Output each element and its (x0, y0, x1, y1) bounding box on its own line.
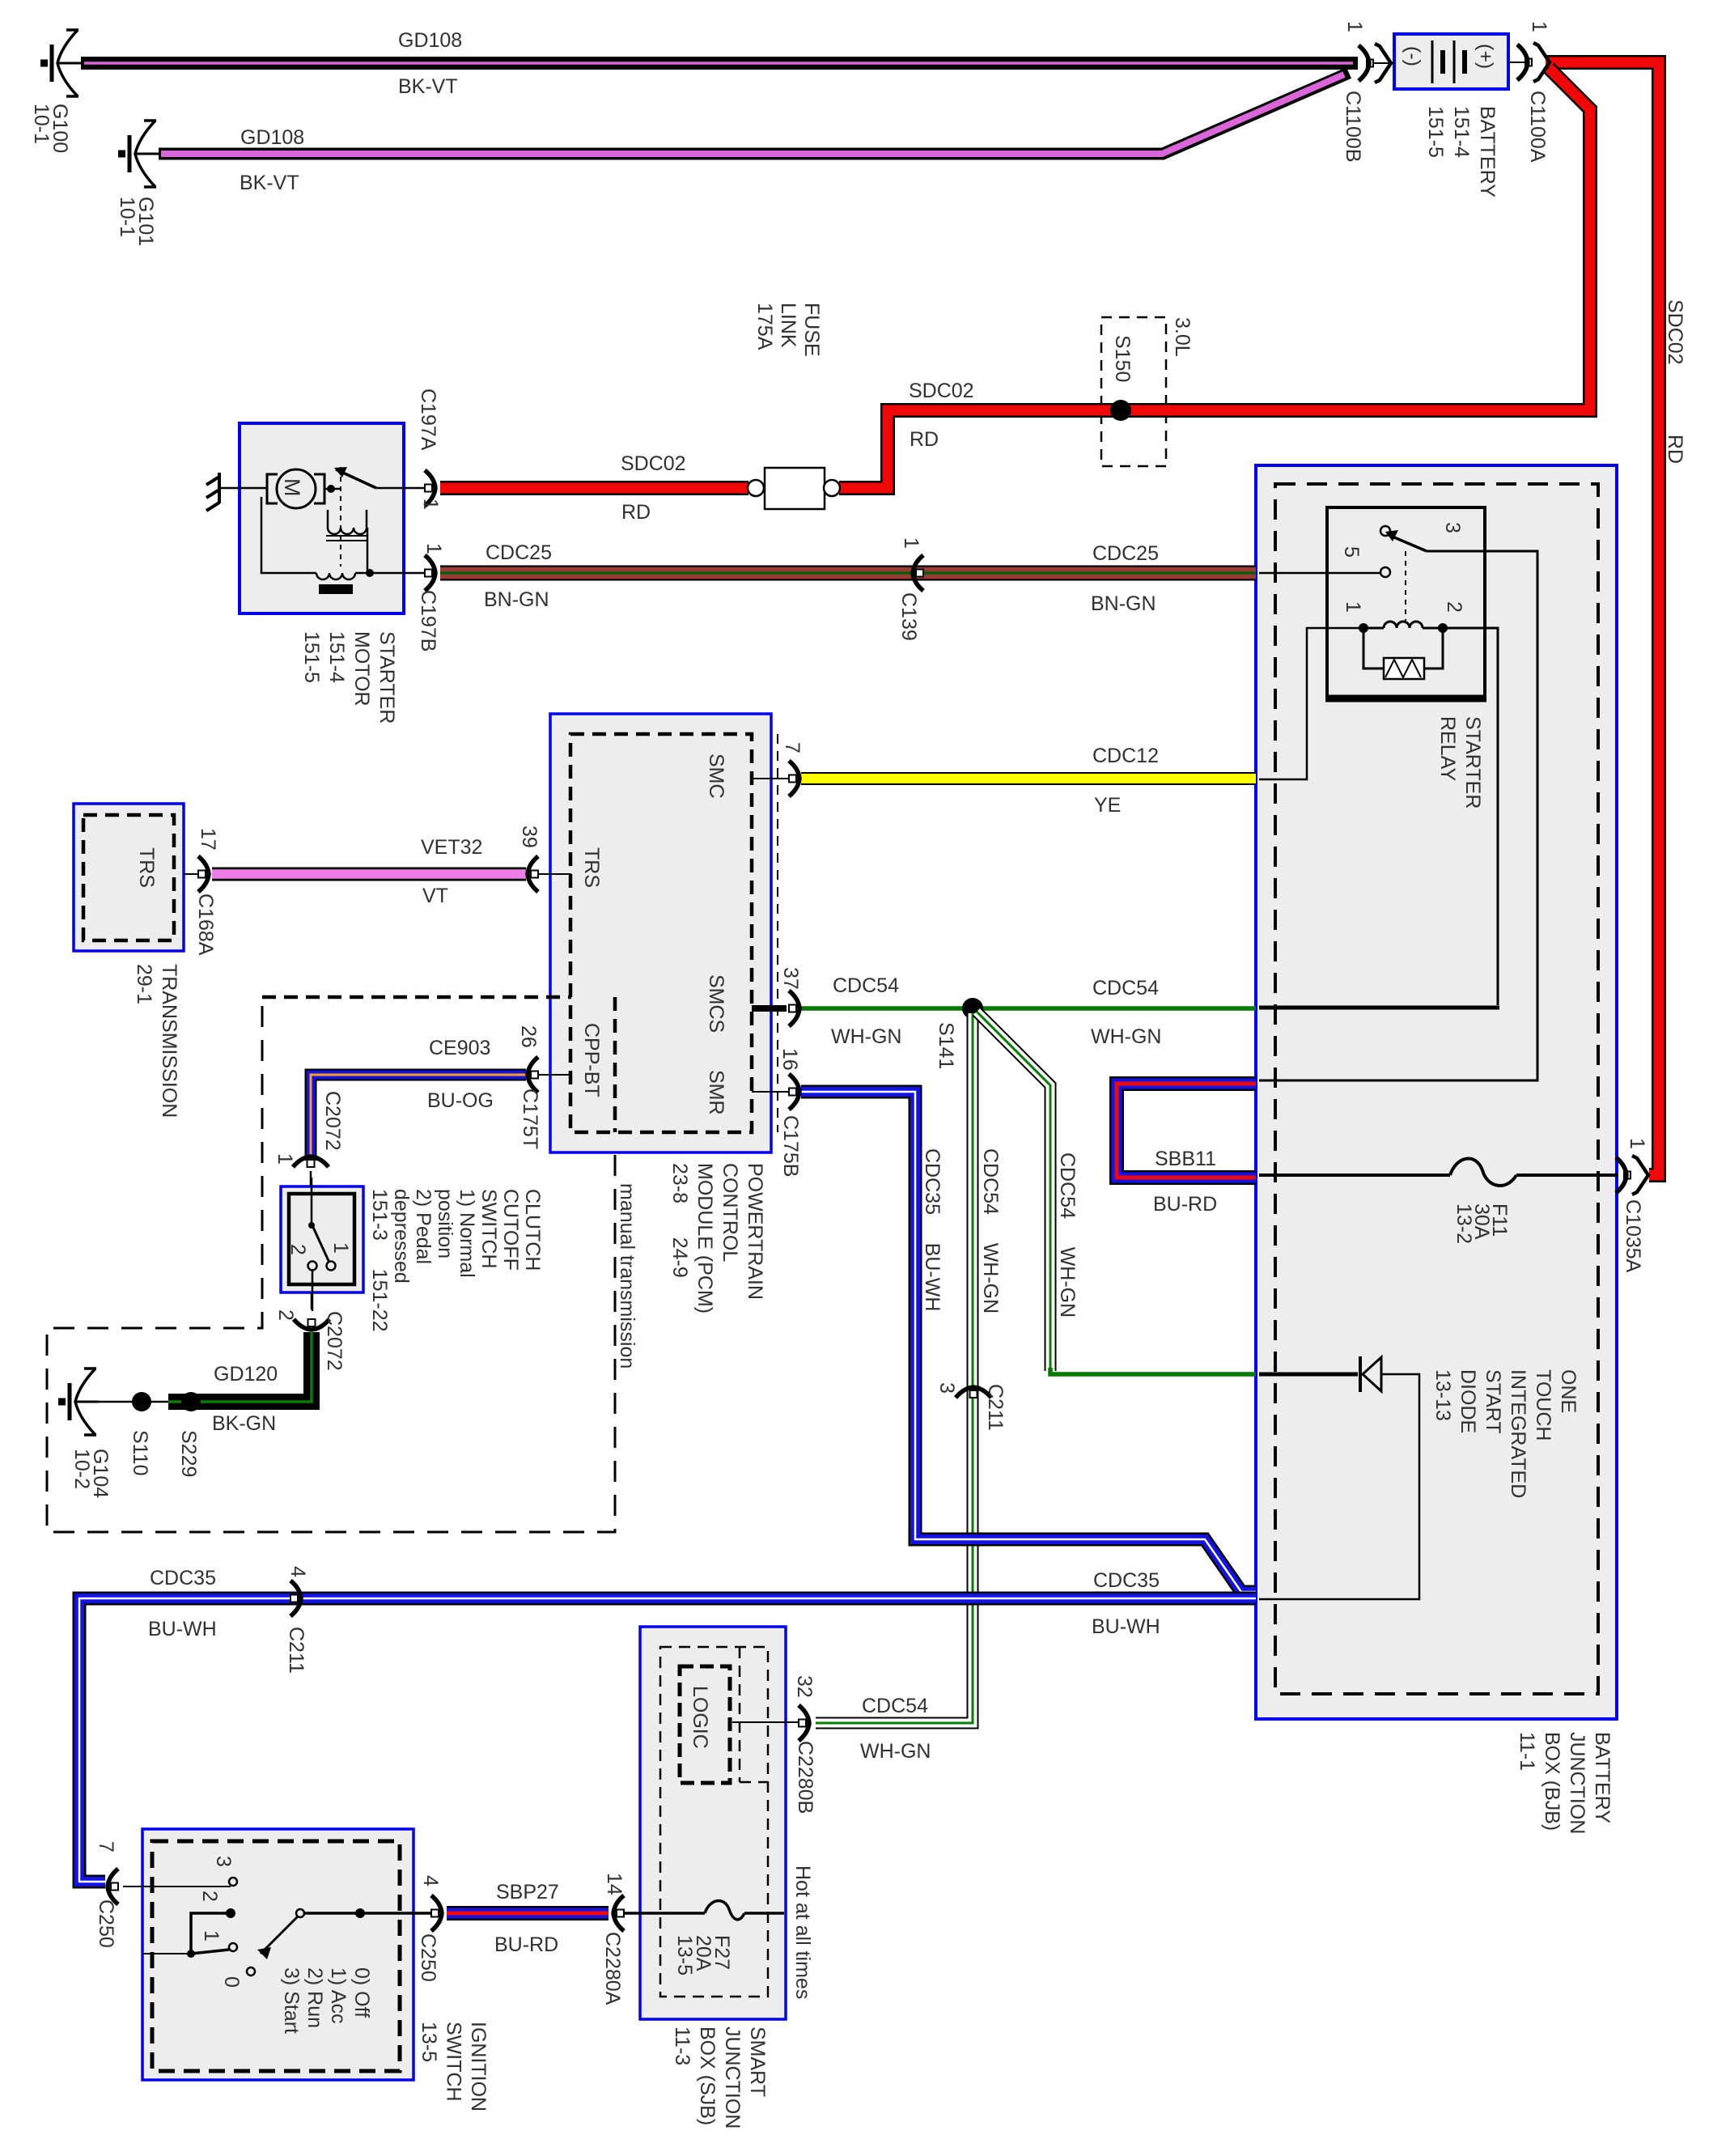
svg-text:JUNCTION: JUNCTION (1566, 1732, 1588, 1834)
svg-text:RELAY: RELAY (1436, 716, 1459, 781)
svg-text:BU-WH: BU-WH (148, 1618, 217, 1640)
svg-text:C197A: C197A (417, 388, 439, 451)
svg-text:RD: RD (1664, 435, 1686, 464)
connector C2280A pin 14 (613, 1895, 624, 1931)
svg-text:BN-GN: BN-GN (1091, 592, 1156, 615)
svg-text:C175B: C175B (779, 1115, 802, 1177)
svg-text:151-5: 151-5 (1424, 106, 1447, 158)
svg-text:2: 2 (286, 1244, 309, 1255)
ground G101 (118, 121, 159, 187)
connector C250 pin 4 (431, 1895, 442, 1931)
svg-text:17: 17 (197, 828, 219, 851)
connector C197A (404, 487, 430, 489)
svg-text:C211: C211 (285, 1627, 307, 1674)
svg-text:3: 3 (935, 1382, 958, 1394)
svg-text:CLUTCH: CLUTCH (521, 1189, 544, 1271)
relay coil pin2 line to CDC54 (1443, 628, 1498, 1005)
battery junction box (BJB) (1256, 465, 1617, 1719)
svg-text:29-1: 29-1 (133, 964, 155, 1004)
svg-text:STARTER: STARTER (1461, 716, 1484, 808)
relay coil pin1 line to CDC12 (1259, 628, 1359, 779)
svg-text:C175T: C175T (519, 1089, 541, 1149)
svg-text:CPP-BT: CPP-BT (580, 1023, 603, 1097)
smart junction box (SJB) (640, 1627, 786, 2019)
svg-text:RD: RD (910, 428, 939, 451)
svg-text:S110: S110 (129, 1430, 151, 1476)
PCM pin 26 CPP-BT (537, 1074, 571, 1076)
one touch integrated start diode (1259, 1373, 1358, 1377)
svg-text:16: 16 (778, 1048, 801, 1071)
svg-text:LINK: LINK (777, 303, 799, 348)
svg-text:14: 14 (603, 1873, 626, 1895)
wire SDC02 RD battery to right edge down to C1035A (1546, 62, 1659, 1175)
svg-text:CONTROL: CONTROL (719, 1163, 741, 1262)
svg-text:BK-GN: BK-GN (212, 1412, 276, 1435)
transmission TRS box (74, 804, 184, 951)
svg-text:SDC02: SDC02 (621, 452, 686, 475)
wire GD108 BK-VT from G100 to C1100B (81, 57, 1358, 70)
svg-text:151-4: 151-4 (1450, 106, 1473, 158)
LOGIC output line (732, 1721, 804, 1723)
svg-text:1: 1 (329, 1242, 352, 1254)
svg-text:CE903: CE903 (429, 1037, 490, 1059)
svg-text:1: 1 (419, 499, 442, 510)
svg-text:C2280B: C2280B (794, 1741, 816, 1814)
powertrain control module (PCM) box (550, 714, 778, 1152)
fuse link 175A (748, 468, 840, 509)
svg-text:LOGIC: LOGIC (689, 1686, 711, 1749)
connector C211 pin 3 (956, 1387, 991, 1398)
splice S110 (132, 1392, 151, 1411)
starter relay box (1325, 507, 1486, 700)
wire CDC12 YE from PCM SMC to BJB (801, 772, 1256, 785)
PCM pin 7 SMC (752, 778, 796, 779)
svg-text:151-4: 151-4 (325, 631, 348, 683)
clutch cutoff switch box (281, 1186, 363, 1292)
wire VET32 VT TRS to PCM (212, 868, 526, 881)
svg-text:2: 2 (198, 1891, 221, 1902)
svg-text:START: START (1482, 1369, 1504, 1434)
svg-text:TRS: TRS (580, 847, 603, 888)
svg-text:13-5: 13-5 (418, 2022, 440, 2062)
PCM pin 39 TRS (537, 873, 571, 875)
svg-text:BK-VT: BK-VT (240, 172, 299, 194)
relay pin 3 and switch blade (1380, 526, 1390, 536)
connector C250 pin 7 (108, 1869, 118, 1904)
svg-text:11-1: 11-1 (1516, 1732, 1538, 1771)
svg-text:SMART: SMART (746, 2027, 769, 2097)
svg-text:BK-VT: BK-VT (398, 75, 458, 98)
svg-text:C2072: C2072 (323, 1311, 346, 1371)
svg-text:13-5: 13-5 (673, 1935, 696, 1976)
svg-text:MOTOR: MOTOR (350, 631, 373, 707)
svg-text:C197B: C197B (417, 590, 439, 651)
svg-text:BATTERY: BATTERY (1591, 1732, 1614, 1823)
svg-text:CDC54: CDC54 (1092, 977, 1159, 999)
svg-text:BU-OG: BU-OG (427, 1089, 494, 1112)
wire CDC35 BU-WH from PCM SMR to BJB (801, 1092, 1256, 1592)
connector C139 (913, 555, 923, 591)
svg-text:2: 2 (1443, 601, 1465, 613)
svg-text:M: M (280, 478, 304, 497)
svg-text:SMC: SMC (705, 753, 727, 799)
wire CDC25 BN-GN starter to BJB (440, 566, 1256, 581)
svg-text:SWITCH: SWITCH (443, 2022, 465, 2102)
svg-text:S229: S229 (177, 1430, 200, 1477)
solenoid coils (328, 510, 367, 528)
svg-text:SWITCH: SWITCH (477, 1189, 500, 1269)
chassis ground at starter motor (206, 473, 267, 511)
svg-text:GD120: GD120 (214, 1363, 278, 1386)
svg-text:GD108: GD108 (240, 126, 304, 149)
svg-text:10-2: 10-2 (70, 1449, 93, 1489)
PCM pin 37 SMCS (752, 1005, 787, 1012)
wire SDC02 RD battery branch to S150 and fuse link (839, 68, 1590, 488)
svg-text:C1100A: C1100A (1526, 91, 1549, 163)
ignition switch internals (123, 1886, 231, 1887)
svg-text:Hot at all times: Hot at all times (791, 1865, 814, 1999)
connector C2072 pin 2 (311, 1292, 313, 1309)
svg-text:BU-RD: BU-RD (494, 1933, 558, 1956)
svg-text:C1100B: C1100B (1342, 91, 1364, 163)
relay resistor (1363, 628, 1443, 668)
svg-text:SMCS: SMCS (705, 974, 727, 1033)
svg-text:151-3 151-22: 151-3 151-22 (368, 1189, 391, 1332)
svg-text:2) Run: 2) Run (303, 1967, 326, 2028)
svg-text:VT: VT (422, 885, 448, 907)
svg-text:S150: S150 (1111, 335, 1134, 382)
relay pin5 line to CDC25 (1259, 572, 1380, 575)
svg-text:C250: C250 (417, 1933, 439, 1982)
svg-text:2: 2 (274, 1309, 297, 1321)
svg-text:11-3: 11-3 (671, 2027, 693, 2065)
svg-text:STARTER: STARTER (375, 631, 398, 724)
svg-text:CDC25: CDC25 (1092, 542, 1159, 565)
svg-text:5: 5 (1340, 546, 1363, 558)
svg-text:TOUCH: TOUCH (1532, 1369, 1554, 1441)
svg-text:3: 3 (1441, 522, 1464, 533)
svg-text:SDC02: SDC02 (909, 380, 974, 402)
svg-text:INTEGRATED: INTEGRATED (1507, 1369, 1529, 1498)
wire CDC54 WH-GN vertical to C2280B (816, 1013, 973, 1723)
svg-text:26: 26 (517, 1025, 540, 1048)
battery B1 (1394, 34, 1508, 89)
svg-text:23-8 24-9: 23-8 24-9 (668, 1163, 691, 1278)
wire SBP27 BU-RD ignition to SJB (447, 1906, 609, 1920)
svg-text:BN-GN: BN-GN (484, 588, 549, 611)
svg-text:CUTOFF: CUTOFF (499, 1189, 522, 1271)
svg-text:32: 32 (793, 1675, 816, 1698)
svg-text:1: 1 (1626, 1138, 1648, 1149)
svg-text:MODULE (PCM): MODULE (PCM) (693, 1163, 716, 1314)
svg-text:position: position (434, 1189, 456, 1258)
svg-text:DIODE: DIODE (1457, 1369, 1479, 1433)
svg-text:175A: 175A (753, 303, 776, 350)
svg-text:C2280A: C2280A (601, 1932, 624, 2005)
svg-text:WH-GN: WH-GN (831, 1025, 901, 1048)
svg-text:CDC35: CDC35 (1093, 1569, 1160, 1592)
fuse F11 30A line and C1035A (1259, 1173, 1618, 1177)
connector C2072 pin 1 (293, 1157, 329, 1167)
svg-text:4: 4 (419, 1875, 442, 1886)
svg-text:BU-RD: BU-RD (1153, 1193, 1217, 1216)
svg-text:1) Acc: 1) Acc (327, 1967, 350, 2023)
svg-text:0) Off: 0) Off (350, 1967, 373, 2018)
svg-text:0: 0 (220, 1976, 243, 1988)
svg-text:151-5: 151-5 (300, 631, 323, 683)
svg-text:C250: C250 (95, 1899, 117, 1948)
svg-text:S141: S141 (935, 1022, 957, 1069)
svg-text:3.0L: 3.0L (1171, 317, 1194, 357)
svg-text:1: 1 (422, 543, 445, 554)
PCM pin 16 SMR (752, 1091, 796, 1093)
svg-text:RD: RD (621, 501, 651, 524)
fuse F27 20A line (618, 1912, 784, 1915)
svg-text:ONE: ONE (1557, 1369, 1580, 1413)
svg-text:CDC35 BU-WH: CDC35 BU-WH (921, 1148, 944, 1311)
svg-text:BOX (BJB): BOX (BJB) (1541, 1732, 1563, 1831)
svg-text:2) Pedal: 2) Pedal (412, 1189, 435, 1264)
svg-text:1: 1 (1342, 601, 1364, 613)
svg-text:(-): (-) (1402, 46, 1424, 66)
svg-text:C168A: C168A (194, 893, 217, 956)
relay pin3 line to SBB11 (1259, 551, 1537, 1080)
svg-text:SDC02: SDC02 (1664, 299, 1686, 365)
relay pin 5 (1380, 567, 1390, 577)
svg-text:3: 3 (212, 1856, 235, 1867)
svg-text:3) Start: 3) Start (280, 1967, 303, 2034)
splice S150 (1110, 400, 1131, 421)
wire SDC02 RD fuse link to starter C197A (440, 481, 748, 495)
wire CDC54 WH-GN diagonal branch to diode (977, 1012, 1050, 1371)
starter motor box (240, 423, 404, 613)
svg-text:C1035A: C1035A (1622, 1199, 1644, 1273)
splice S141 (962, 998, 983, 1019)
ground G100 (40, 30, 81, 96)
svg-text:1: 1 (200, 1930, 223, 1942)
wire SBB11 BU-RD loop at BJB (1117, 1084, 1256, 1178)
connector C1100B (1369, 62, 1394, 64)
svg-text:POWERTRAIN: POWERTRAIN (744, 1163, 766, 1300)
svg-text:CDC35: CDC35 (150, 1567, 216, 1589)
connector C197B (404, 572, 430, 574)
wire CDC35 BU-WH long run from ignition switch to BJB (79, 1598, 1256, 1882)
relay coil pins 1-2 (1359, 623, 1368, 633)
svg-text:C139: C139 (897, 592, 920, 641)
connector C211 pin 4 (290, 1581, 301, 1616)
svg-text:TRANSMISSION: TRANSMISSION (158, 964, 180, 1118)
svg-text:BOX (SJB): BOX (SJB) (696, 2027, 719, 2125)
wire GD108 BK-VT from G101 (violet core) (159, 73, 1349, 154)
manual transmission dashed region (47, 997, 615, 1532)
svg-text:manual transmission: manual transmission (616, 1183, 638, 1369)
svg-text:depressed: depressed (390, 1189, 413, 1284)
svg-text:SBP27: SBP27 (496, 1881, 559, 1903)
connector C2280B pin 32 (799, 1705, 809, 1741)
svg-text:39: 39 (518, 825, 541, 848)
svg-text:1: 1 (1343, 21, 1366, 32)
splice S229 (181, 1392, 201, 1411)
wire CE903 BU-OG clutch switch to PCM (311, 1075, 526, 1161)
svg-text:1) Normal: 1) Normal (456, 1189, 478, 1278)
svg-text:10-1: 10-1 (30, 104, 53, 144)
svg-text:10-1: 10-1 (116, 197, 138, 237)
svg-text:1: 1 (900, 537, 922, 549)
svg-text:IGNITION: IGNITION (467, 2022, 490, 2111)
ignition switch box (142, 1829, 413, 2080)
svg-text:SMR: SMR (705, 1070, 727, 1115)
svg-text:BATTERY: BATTERY (1476, 106, 1499, 197)
connector C168A (184, 873, 204, 875)
svg-text:37: 37 (779, 967, 802, 990)
svg-text:CDC54: CDC54 (833, 974, 899, 997)
svg-text:CDC12: CDC12 (1092, 745, 1159, 767)
svg-text:GD108: GD108 (398, 29, 462, 52)
svg-text:C211: C211 (984, 1384, 1007, 1431)
wire CDC54 WH-GN (green) PCM SMCS to BJB (801, 1006, 1256, 1011)
svg-text:C2072: C2072 (321, 1091, 344, 1151)
svg-text:FUSE: FUSE (800, 303, 823, 357)
svg-text:SBB11: SBB11 (1155, 1148, 1216, 1170)
svg-text:4: 4 (286, 1566, 309, 1577)
connector C1100A (1508, 62, 1529, 63)
svg-text:YE: YE (1094, 794, 1121, 817)
svg-text:WH-GN: WH-GN (1091, 1025, 1161, 1048)
svg-text:1: 1 (274, 1153, 296, 1165)
svg-text:(+): (+) (1474, 44, 1497, 69)
svg-text:JUNCTION: JUNCTION (721, 2027, 744, 2128)
svg-text:7: 7 (95, 1841, 117, 1853)
svg-text:13-2: 13-2 (1452, 1203, 1475, 1244)
svg-text:13-13: 13-13 (1431, 1369, 1454, 1421)
wire GD120 BK-GN clutch switch to G104 (168, 1332, 312, 1402)
dashed box S150 (1101, 317, 1166, 466)
ground G104 (58, 1369, 99, 1435)
svg-text:TRS: TRS (135, 847, 158, 888)
svg-text:7: 7 (781, 742, 804, 753)
svg-text:CDC54 WH-GN: CDC54 WH-GN (979, 1148, 1002, 1314)
svg-text:WH-GN: WH-GN (860, 1740, 931, 1763)
svg-text:CDC25: CDC25 (486, 541, 552, 564)
svg-text:1: 1 (1528, 21, 1550, 32)
svg-text:BU-WH: BU-WH (1092, 1615, 1160, 1638)
clutch cutoff switch internals (311, 1178, 313, 1224)
svg-text:VET32: VET32 (421, 836, 482, 859)
svg-text:CDC54 WH-GN: CDC54 WH-GN (1056, 1152, 1079, 1318)
svg-text:CDC54: CDC54 (862, 1695, 928, 1717)
